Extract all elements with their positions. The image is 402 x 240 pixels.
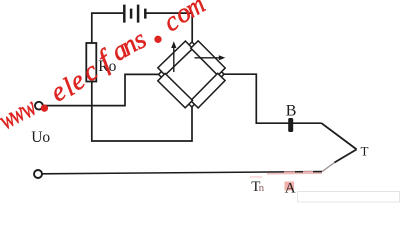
- wire R0 bottom to bridge bottom node: [92, 82, 192, 142]
- bridge diamond edges: [159, 42, 225, 107]
- battery B1: [124, 5, 145, 23]
- contact blade A to T: [322, 163, 335, 172]
- contact B (bar): [288, 118, 293, 132]
- strain gauge R1 (top-left arm): [158, 41, 193, 75]
- wire bridge left node to output terminal: [43, 74, 158, 105]
- wire lower terminal to contact A: [42, 172, 322, 174]
- svg-text:A: A: [285, 181, 296, 197]
- svg-text:B: B: [286, 102, 297, 119]
- resistor R4 (bottom-left arm): [158, 73, 193, 107]
- arrow through R2 (horizontal, pointing right): [195, 55, 226, 60]
- pink watermark remnant on wire: [267, 172, 322, 174]
- terminal Uo upper: [35, 102, 43, 110]
- wire battery right to bridge top node: [147, 13, 193, 42]
- resistor R3 (bottom-right arm): [191, 73, 225, 108]
- resistor R0: [86, 43, 96, 82]
- terminal Uo lower: [34, 170, 42, 178]
- wire battery left to R0 top: [92, 13, 123, 43]
- label A with pink highlight: [285, 182, 295, 191]
- wire to pivot T: [322, 123, 357, 149]
- watermark www.elecfans.com: [0, 0, 210, 135]
- svg-text:n: n: [259, 182, 265, 194]
- faint input box bottom right: [298, 192, 400, 203]
- svg-text:Uo: Uo: [31, 129, 50, 146]
- svg-text:T: T: [361, 144, 369, 159]
- strain gauge R2 (top-right arm): [191, 41, 225, 76]
- wire bridge right node to contact B: [224, 74, 322, 123]
- arrow through R1 (vertical, pointing up): [171, 41, 176, 72]
